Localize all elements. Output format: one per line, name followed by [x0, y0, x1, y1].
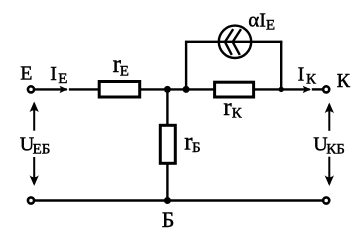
arrow UKB down: [325, 157, 334, 186]
svg-text:КБ: КБ: [326, 142, 345, 158]
svg-text:ЕБ: ЕБ: [33, 142, 51, 158]
svg-text:К: К: [232, 105, 243, 121]
svg-text:К: К: [306, 71, 317, 87]
svg-text:Е: Е: [120, 63, 129, 79]
wire: current source loop top: [185, 41, 282, 43]
arrow current IE: [60, 86, 68, 93]
svg-text:I: I: [298, 64, 305, 86]
svg-text:Е: Е: [58, 71, 67, 87]
svg-text:I: I: [50, 63, 57, 85]
svg-text:αI: αI: [248, 8, 266, 32]
node: junction dot at source left leg: [183, 86, 190, 93]
terminal E circle: [28, 86, 34, 92]
resistor rE: [99, 82, 140, 98]
wire: IK arrow gap to terminal K: [312, 88, 324, 90]
wire: IE arrow gap to rE: [69, 88, 99, 90]
terminal K circle: [323, 86, 329, 92]
arrow UKB up: [325, 103, 334, 131]
node: junction dot on base rail: [164, 197, 171, 204]
current source chevron 2: [233, 29, 241, 55]
wire: current source loop right leg: [280, 41, 282, 90]
current source chevron 1: [225, 29, 233, 55]
node: junction dot at source right leg: [279, 87, 284, 92]
svg-text:Е: Е: [266, 17, 275, 33]
current source U circle: [219, 26, 251, 58]
wire: rB branch lower segment: [166, 164, 168, 201]
wire: between rE and rK: [141, 88, 215, 90]
resistor rB (vertical): [160, 125, 175, 163]
resistor rK: [215, 82, 254, 97]
node: junction dot at rB branch: [164, 86, 171, 93]
svg-text:Б: Б: [192, 140, 201, 156]
arrow UEB up: [30, 102, 39, 131]
wire: bottom base rail: [34, 199, 324, 201]
arrow current IK: [303, 86, 311, 93]
svg-text:Б: Б: [162, 207, 175, 232]
wire: rK to collector lead K: [254, 88, 310, 90]
wire: emitter lead E to resistor rE: [34, 88, 67, 90]
wire: rB branch upper segment: [166, 89, 168, 125]
wire: current source loop left leg: [185, 41, 187, 90]
svg-text:Е: Е: [20, 63, 32, 85]
arrow UEB down: [30, 157, 39, 186]
terminal bottom-right circle: [323, 197, 329, 203]
terminal bottom-left circle: [28, 197, 34, 203]
svg-text:К: К: [337, 70, 351, 92]
